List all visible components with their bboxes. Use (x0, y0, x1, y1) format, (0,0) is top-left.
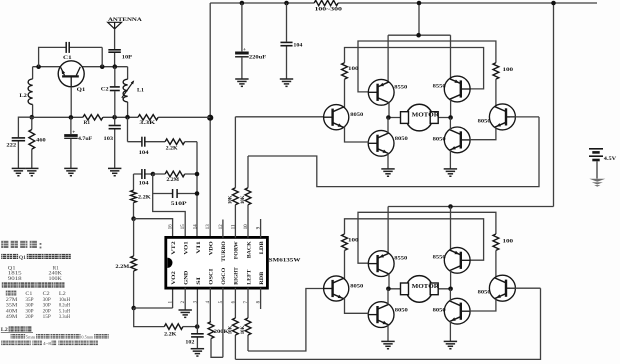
ground (102) (191, 349, 204, 356)
svg-text:2.2M: 2.2M (166, 178, 179, 183)
text note line-3 (1, 341, 98, 346)
wire 100R to driver (bridge-2) (495, 250, 497, 277)
wire 8050BL emitter (bridge-2) (387, 325, 389, 342)
wire 8050BR collector (bridge-2) (449, 289, 451, 301)
svg-text:13: 13 (206, 224, 211, 229)
svg-text:20P: 20P (25, 315, 34, 320)
wire cross base-L (bridge-1) (358, 41, 496, 92)
wire 8550R emitter (bridge-2) (450, 207, 452, 251)
wire FORW route (235, 116, 325, 118)
svg-text:MOTOR: MOTOR (412, 284, 440, 290)
svg-text:2.2M: 2.2M (115, 265, 129, 270)
node C1 left (36, 64, 41, 69)
svg-text:GND: GND (184, 271, 190, 285)
svg-text:8050: 8050 (395, 136, 409, 142)
wire 8550R collector (bridge-2) (450, 271, 452, 289)
svg-text:L2: L2 (19, 93, 27, 99)
ground (4.7uF) (64, 168, 77, 175)
svg-text:4.5V: 4.5V (604, 156, 617, 162)
resistor 10K (FORW) (229, 117, 239, 238)
capacitor 102 (185, 327, 203, 349)
ground (460) (25, 168, 38, 175)
text table row 9018/100K (8, 277, 63, 282)
svg-text:VO2: VO2 (171, 271, 177, 285)
resistor 100 right (bridge-1) (493, 63, 514, 79)
wire 8550R emitter (bridge-1) (450, 35, 452, 78)
svg-text:100~300: 100~300 (315, 8, 343, 13)
svg-text:49M: 49M (6, 315, 19, 320)
resistor 100 left (bridge-1) (342, 63, 360, 79)
svg-text:2.2K: 2.2K (164, 332, 177, 337)
node VO2 branch (131, 306, 136, 311)
wire cross base-R (bridge-1) (345, 48, 484, 89)
resistor 2.2K (SI) (164, 324, 197, 337)
svg-text:30P: 30P (25, 309, 34, 314)
resistor 10K (BACK) (241, 156, 251, 238)
svg-text:5mm: 5mm (26, 334, 36, 339)
node VDD/3.3K (207, 115, 213, 121)
node net-B1 (195, 172, 200, 177)
svg-text:SM6135W: SM6135W (269, 258, 301, 264)
resistor 10K (LEFT) (241, 288, 251, 351)
svg-text:+: + (72, 129, 75, 135)
svg-text:220uF: 220uF (249, 54, 266, 60)
ground (103) (108, 168, 121, 175)
resistor 3.3K (138, 115, 158, 127)
transistor 8550 TR (bridge-1) (433, 76, 471, 102)
svg-text:0.5mm: 0.5mm (81, 334, 94, 339)
wire 8050BR emitter (bridge-2) (449, 321, 451, 341)
svg-text:8050: 8050 (350, 283, 364, 289)
wire driverR base (bridge-1) (510, 116, 539, 118)
wire net-A to pin 15 (153, 194, 186, 238)
capacitor 220uF (filter) (235, 3, 266, 79)
node rail/bridge-1 (417, 1, 422, 6)
svg-text:16: 16 (169, 224, 174, 229)
svg-text:30P: 30P (25, 304, 34, 309)
svg-text:3.3K: 3.3K (139, 121, 155, 126)
svg-text:100: 100 (503, 239, 514, 244)
capacitor 4.7uF (64, 117, 92, 168)
text ANTENNA (108, 17, 142, 23)
capacitor 10P (antenna) (108, 29, 133, 67)
transistor 8050 BL (bridge-1) (368, 130, 408, 156)
transistor 8550 TL (bridge-2) (368, 251, 408, 277)
wire battery to ground (596, 161, 598, 178)
svg-text:L2: L2 (59, 292, 67, 297)
wire LEFT route (248, 289, 325, 352)
node net-A (151, 172, 156, 177)
wire 8050BL collector (bridge-1) (387, 118, 389, 134)
svg-text:+: + (243, 47, 246, 53)
svg-text:30P: 30P (43, 298, 52, 303)
svg-text:BACK: BACK (246, 240, 252, 258)
svg-text:8550: 8550 (394, 256, 408, 262)
resistor 10K (RIGHT) (229, 288, 239, 360)
svg-text:104: 104 (139, 151, 150, 156)
svg-text:4.7uF: 4.7uF (78, 137, 92, 142)
wire 8550L collector (bridge-2) (388, 274, 390, 289)
wire 8550L emitter (bridge-2) (387, 207, 389, 254)
ground bridge R (bridge-1) (444, 169, 457, 176)
node motor left (bridge-2) (386, 287, 391, 292)
IC pin names bottom (171, 267, 265, 285)
svg-text:C2: C2 (101, 86, 109, 92)
svg-text:104: 104 (139, 181, 150, 186)
wire base bias line (32, 116, 210, 118)
svg-text:L1: L1 (137, 87, 144, 93)
capacitor C1 (feedback) (39, 42, 103, 67)
wire VDD rail to IC pin 13 (209, 3, 211, 238)
svg-text:4~8: 4~8 (43, 341, 52, 346)
wire pin 4 (OSCI) (209, 288, 211, 322)
svg-text:10K: 10K (229, 195, 234, 204)
ground bridge L (bridge-1) (381, 169, 394, 176)
node motor left (bridge-1) (386, 115, 391, 120)
svg-text:10K: 10K (229, 326, 234, 335)
IC pin 9 stub (LDB) (260, 219, 262, 238)
svg-text:100K: 100K (49, 277, 63, 282)
node motor right (bridge-1) (448, 115, 453, 120)
svg-text:2.2K: 2.2K (138, 195, 151, 200)
node antenna/C2 (113, 64, 118, 69)
svg-text:LDB: LDB (259, 241, 265, 254)
ground (IC GND) (179, 310, 192, 317)
svg-text:RIGHT: RIGHT (234, 267, 240, 285)
svg-text:35P: 35P (25, 298, 34, 303)
transistor Q1 (58, 61, 85, 93)
wire Q1 base to bias node (70, 87, 72, 118)
resistor 2.2M (feedback) (153, 171, 197, 183)
svg-text:8550: 8550 (433, 83, 447, 89)
wire VCC top rail (210, 2, 597, 4)
svg-text:8550: 8550 (433, 255, 447, 261)
IC U1 SM6135W body (166, 237, 268, 288)
text table row 27M (6, 298, 71, 303)
svg-text:SI: SI (196, 277, 202, 285)
IC pin numbers top (169, 224, 262, 229)
text table row Q1/R1 (8, 266, 60, 271)
wire driverR base (bridge-2) (510, 287, 541, 289)
svg-text:8050: 8050 (395, 307, 409, 313)
ground bridge L (bridge-2) (381, 341, 394, 348)
resistor 200K (208, 322, 229, 339)
battery BT1 4.5V (589, 149, 617, 162)
svg-text:10P: 10P (122, 54, 133, 60)
svg-text:R1: R1 (53, 266, 60, 271)
transistor 8050 driver-L (bridge-1) (324, 105, 364, 130)
wire emitter rail (bridge-1) (388, 34, 450, 36)
svg-text:222: 222 (6, 144, 17, 149)
text table row 1815/240K (8, 272, 63, 277)
wire oscillator top (33, 66, 128, 68)
svg-text:3.3uH: 3.3uH (59, 315, 71, 320)
wire BACK route (248, 117, 539, 187)
svg-text:8050: 8050 (478, 118, 492, 124)
resistor 2.2K (series) (165, 139, 197, 152)
capacitor 104 (coupling-2) (134, 169, 153, 186)
wire pin 2 (GND) (184, 288, 186, 310)
svg-text:OSCI: OSCI (209, 269, 215, 285)
transistor 8050 BL (bridge-2) (368, 302, 408, 328)
wire 8050BR collector (bridge-1) (449, 118, 451, 130)
svg-text:100: 100 (503, 68, 514, 73)
svg-text:15P: 15P (43, 315, 52, 320)
node net-B2 (195, 191, 200, 196)
wire bridge-1 feed (418, 3, 420, 35)
wire driverR emitter to BR base (bridge-1) (470, 128, 496, 140)
transistor 8550 TR (bridge-2) (433, 247, 471, 273)
IC pin 12 stub (TURBO) (222, 220, 224, 238)
svg-text:14: 14 (194, 224, 199, 229)
svg-text:5.1uH: 5.1uH (59, 309, 71, 314)
node motor right (bridge-2) (448, 287, 453, 292)
wire tap down (127, 117, 129, 142)
svg-text:R1: R1 (84, 121, 91, 126)
svg-text:10K: 10K (241, 326, 246, 335)
svg-text:8050: 8050 (350, 112, 364, 118)
resistor 100~300 (supply) (314, 0, 343, 12)
text table row 40M (6, 309, 71, 314)
resistor 100 right (bridge-2) (493, 234, 514, 250)
text table header f/C1/C2/L2 (6, 291, 67, 298)
wire driverL emitter to BL base (bridge-2) (345, 298, 370, 314)
node rail/bridge-2 (551, 1, 556, 6)
svg-text:OSCO: OSCO (221, 268, 227, 285)
ground (220uF) (235, 79, 248, 86)
node VT2 branch (131, 216, 136, 221)
svg-text:8.2uH: 8.2uH (59, 304, 71, 309)
transistor 8050 driver-R (bridge-2) (478, 275, 516, 301)
motor M (bridge-2) (388, 276, 451, 303)
svg-text:103: 103 (104, 137, 114, 142)
wire 8050BR emitter (bridge-1) (449, 150, 451, 169)
svg-text:VO1: VO1 (184, 241, 190, 255)
IC pin 8 stub (RDB) (260, 288, 262, 309)
svg-text:Q1: Q1 (77, 87, 86, 93)
node L2/bias (30, 115, 35, 120)
wire 8550L emitter (bridge-1) (387, 35, 389, 82)
wire pin 5 (OSCO) (222, 288, 224, 358)
svg-text:VDO: VDO (209, 241, 215, 255)
svg-text:15: 15 (181, 224, 186, 229)
svg-text:35M: 35M (6, 304, 19, 309)
wire 8050BL collector (bridge-2) (387, 289, 389, 305)
text table row 35M (6, 304, 71, 309)
capacitor 104 (coupling-1) (128, 137, 166, 157)
inductor L2 (19, 67, 32, 118)
node detector (112, 115, 117, 120)
wire 100L to driver (bridge-2) (344, 250, 346, 279)
svg-text:8050: 8050 (478, 290, 492, 296)
node rail/220uF (240, 1, 245, 6)
wire 8050BL emitter (bridge-1) (387, 153, 389, 169)
wire bridge-2 feed (553, 3, 555, 207)
label SM6135W (269, 258, 301, 264)
svg-text:Q1: Q1 (8, 266, 17, 271)
transistor 8050 BR (bridge-1) (433, 127, 471, 153)
resistor 100 left (bridge-2) (342, 234, 360, 250)
node Q1 base (69, 115, 74, 120)
wire to pin 16 (134, 219, 173, 238)
wire 8550R collector (bridge-1) (450, 99, 452, 117)
svg-text:8050: 8050 (433, 136, 447, 142)
svg-text:30P: 30P (43, 304, 52, 309)
svg-text:FORW: FORW (234, 241, 240, 260)
text note header-2 (2, 282, 65, 287)
svg-text:MOTOR: MOTOR (412, 113, 440, 119)
wire VI1 column (196, 142, 198, 238)
wire driverL emitter to BL base (bridge-1) (345, 126, 370, 142)
ground (104) (280, 79, 293, 86)
inductor L1 (122, 67, 145, 118)
wire 100L to driver (bridge-1) (344, 79, 346, 108)
ground (222) (12, 168, 25, 175)
IC pin names top (171, 240, 265, 261)
node bridge feed (bridge-2) (448, 204, 453, 209)
node C1 right (100, 64, 105, 69)
svg-text:RDB: RDB (259, 271, 265, 284)
svg-text:10uH: 10uH (59, 298, 71, 303)
svg-text:460: 460 (36, 138, 46, 143)
svg-text:VT2: VT2 (171, 241, 177, 255)
capacitor 510P (153, 174, 197, 207)
svg-text:2.2K: 2.2K (166, 147, 178, 152)
text note line-2 (11, 334, 109, 339)
motor M (bridge-1) (388, 104, 451, 131)
resistor 2.2M (VO2) (115, 219, 136, 308)
svg-text:C2: C2 (43, 292, 51, 297)
wire driverR emitter to BR base (bridge-2) (470, 299, 496, 311)
svg-text:9018: 9018 (8, 277, 23, 282)
svg-text:8050: 8050 (433, 308, 447, 314)
ground (battery) (589, 179, 605, 187)
node SI (195, 324, 200, 329)
text note header-3 (1, 326, 33, 333)
transistor 8050 driver-L (bridge-2) (324, 276, 364, 301)
svg-text:40M: 40M (6, 309, 19, 314)
svg-text:C1: C1 (25, 292, 33, 297)
text note title (1, 241, 41, 249)
svg-text:104: 104 (293, 42, 302, 48)
svg-text:510P: 510P (171, 202, 187, 207)
svg-text:102: 102 (185, 340, 195, 345)
IC pin numbers bottom (169, 300, 262, 303)
transistor 8050 BR (bridge-2) (433, 298, 471, 324)
transistor 8550 TL (bridge-1) (368, 79, 408, 105)
node L1 tap (125, 115, 130, 120)
svg-text:8550: 8550 (394, 84, 408, 90)
wire 8550L collector (bridge-1) (388, 102, 390, 117)
resistor 460 (29, 117, 46, 168)
resistor 2.2K (VT2) (131, 174, 151, 219)
IC notch (167, 258, 172, 268)
capacitor 103 (104, 117, 121, 168)
svg-text:100: 100 (348, 238, 359, 243)
svg-text:TURBO: TURBO (221, 241, 227, 261)
text note header-1 (1, 254, 71, 261)
capacitor 222 (6, 117, 31, 168)
svg-text:LEFT: LEFT (246, 269, 252, 284)
node rail/104 (284, 1, 289, 6)
wire pin 3 (SI) (196, 288, 198, 327)
svg-text:Q1: Q1 (19, 255, 26, 261)
svg-text:200K: 200K (214, 330, 229, 335)
wire cross base-L (bridge-2) (358, 212, 496, 263)
wire 200K to OSCO (211, 339, 223, 358)
transistor 8050 driver-R (bridge-1) (478, 104, 516, 130)
wire to pin 1 (134, 288, 173, 308)
svg-text:100: 100 (348, 67, 359, 72)
svg-text:27M: 27M (6, 298, 19, 303)
wire to SI filter (134, 308, 165, 327)
wire emitter rail (bridge-2) (388, 206, 553, 208)
antenna symbol (108, 22, 122, 29)
wire cross base-R (bridge-2) (345, 219, 484, 260)
svg-text:20P: 20P (43, 309, 52, 314)
text table row 49M (6, 315, 71, 320)
capacitor C2 (101, 67, 120, 118)
resistor R1 (83, 115, 103, 126)
capacitor 104 (bypass) (280, 3, 302, 79)
ground bridge R (bridge-2) (444, 341, 457, 348)
wire 100R to driver (bridge-1) (495, 79, 497, 106)
svg-text:10K: 10K (241, 195, 246, 204)
node bridge feed (bridge-1) (416, 33, 421, 38)
wire RIGHT route (235, 288, 540, 359)
svg-text:VI1: VI1 (196, 241, 202, 254)
svg-text:12: 12 (219, 224, 224, 229)
